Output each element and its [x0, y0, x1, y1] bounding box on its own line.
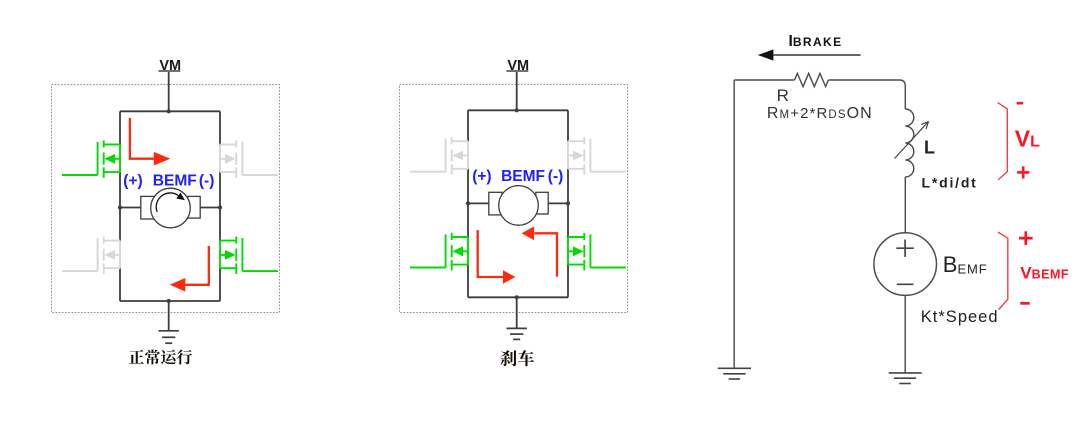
- svg-text:BEMF: BEMF: [501, 168, 545, 185]
- svg-text:(+): (+): [123, 172, 142, 189]
- svg-text:R: R: [777, 86, 789, 105]
- svg-text:IBRAKE: IBRAKE: [789, 33, 843, 50]
- svg-text:BEMF: BEMF: [153, 172, 197, 189]
- svg-text:(-): (-): [199, 172, 215, 189]
- svg-text:L: L: [924, 138, 935, 158]
- svg-text:Kt*Speed: Kt*Speed: [921, 308, 999, 326]
- svg-text:L*di/dt: L*di/dt: [922, 175, 978, 191]
- svg-text:(+): (+): [472, 168, 491, 185]
- svg-text:(-): (-): [548, 168, 564, 185]
